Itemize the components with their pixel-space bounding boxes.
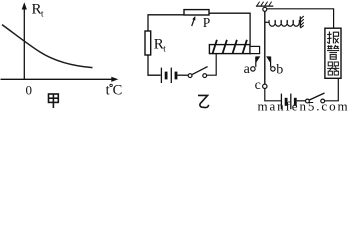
battery B1 (161, 68, 176, 83)
alarm box (325, 28, 341, 78)
alarm char jing (警) (327, 45, 339, 59)
contact post a (flag) (255, 57, 257, 67)
contact a (251, 67, 255, 71)
label jia (甲) (49, 94, 59, 108)
contact c (263, 84, 267, 88)
switch S2 (306, 99, 310, 103)
svg-text:R: R (32, 2, 42, 18)
coil winding hatches (213, 40, 247, 54)
rheostat P box (184, 10, 209, 15)
armature iron tab (250, 46, 260, 53)
fixed support hatching (256, 5, 273, 7)
contact b (271, 67, 275, 71)
wire S1 to coil bottom lead (207, 54, 217, 76)
thermistor Rt box (145, 31, 151, 55)
wire S2 to alarm (325, 78, 339, 101)
svg-text:0: 0 (26, 83, 33, 98)
rheostat arrow (192, 19, 195, 27)
y-axis (23, 7, 25, 79)
wire P to coil lead corner (209, 13, 250, 44)
wire c to bottom (265, 89, 281, 101)
curve Rt vs t (2, 25, 93, 68)
spring link bar (266, 21, 270, 23)
spring wall (299, 16, 301, 27)
pivot (263, 7, 267, 11)
wire top-left loop (148, 15, 184, 31)
svg-text:P: P (203, 15, 211, 30)
alarm char bao (报) (327, 32, 338, 44)
svg-text:b: b (276, 62, 283, 77)
wire battery to switch S1 (177, 74, 188, 76)
wire pivot to alarm (267, 9, 334, 28)
svg-text:t: t (106, 83, 110, 99)
svg-text:C: C (113, 83, 123, 99)
electromagnet coil box (209, 45, 250, 54)
contact post b (flag) (270, 57, 272, 67)
wire Rt to bottom (148, 55, 161, 75)
spring (269, 20, 299, 26)
alarm char qi (器) (327, 62, 339, 75)
battery B2 (281, 94, 295, 110)
x-axis (1, 78, 114, 80)
label yi (乙) (198, 95, 209, 107)
switch S1 (188, 74, 192, 78)
wire battery to switch S2 (297, 100, 306, 102)
svg-text:a: a (244, 62, 251, 77)
svg-text:c: c (255, 78, 261, 93)
armature bar (264, 11, 266, 84)
